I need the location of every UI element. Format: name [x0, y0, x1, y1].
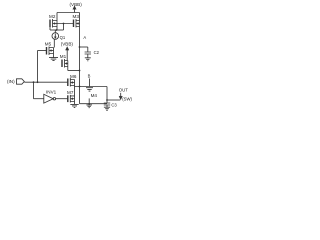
svg-text:M7: M7 [67, 90, 74, 95]
svg-text:A: A [83, 35, 86, 40]
svg-text:B: B [88, 73, 91, 78]
svg-text:(SW): (SW) [122, 97, 132, 102]
svg-text:C2: C2 [94, 50, 100, 55]
svg-text:(VBB): (VBB) [70, 2, 83, 7]
svg-text:M3: M3 [73, 14, 80, 19]
svg-text:OUT: OUT [119, 87, 128, 92]
svg-text:M4: M4 [91, 93, 98, 98]
svg-text:M6: M6 [70, 74, 77, 79]
svg-text:INV1: INV1 [46, 89, 57, 94]
svg-text:(IN): (IN) [7, 79, 15, 84]
svg-text:M1: M1 [60, 54, 67, 59]
svg-text:C3: C3 [111, 103, 117, 108]
svg-text:M5: M5 [45, 42, 52, 47]
svg-text:M2: M2 [49, 14, 56, 19]
svg-text:(VBB): (VBB) [61, 41, 74, 46]
svg-text:Q1: Q1 [60, 35, 66, 40]
